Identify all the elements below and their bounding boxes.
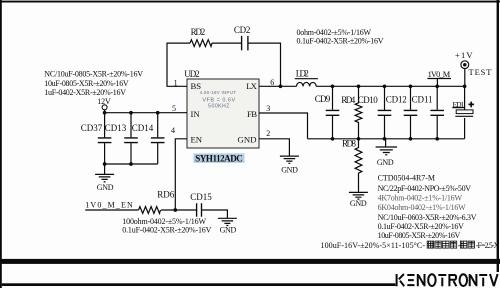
capacitor CD13 bbox=[130, 113, 132, 164]
ED1 plus sign bbox=[469, 102, 475, 108]
node LX junction bbox=[279, 84, 283, 88]
wire EN net bbox=[85, 209, 138, 211]
svg-text:LX: LX bbox=[246, 81, 257, 91]
capacitor CD37 bbox=[104, 113, 106, 164]
svg-text:GND: GND bbox=[220, 225, 237, 234]
svg-text:RD4: RD4 bbox=[341, 95, 356, 105]
svg-text:CD15: CD15 bbox=[190, 192, 212, 202]
wire GND pin2 bbox=[259, 139, 289, 156]
svg-text:CD14: CD14 bbox=[132, 123, 154, 133]
svg-text:3: 3 bbox=[266, 104, 270, 113]
resistor RD2 bbox=[190, 40, 212, 47]
svg-text:10uF-0805-X5R-±20%-16V: 10uF-0805-X5R-±20%-16V bbox=[378, 231, 461, 240]
svg-text:5: 5 bbox=[172, 104, 176, 113]
capacitor CD10 bbox=[384, 86, 386, 139]
svg-text:+1V: +1V bbox=[455, 50, 473, 60]
inductor LD2 bbox=[297, 82, 317, 86]
svg-text:4K7ohm-0402-±1%-1/16W: 4K7ohm-0402-±1%-1/16W bbox=[378, 193, 463, 202]
capacitor CD2 bbox=[242, 36, 248, 51]
svg-text:IN: IN bbox=[191, 109, 201, 119]
IC UD2 body bbox=[187, 79, 259, 148]
capacitor CD12 bbox=[410, 86, 412, 139]
node CD37 tap bbox=[103, 111, 107, 115]
resistor RD4 bbox=[355, 86, 362, 139]
svg-text:GND: GND bbox=[377, 158, 394, 167]
svg-text:CD2: CD2 bbox=[234, 25, 251, 35]
frame left border bbox=[0, 0, 2, 288]
svg-text:GND: GND bbox=[97, 183, 114, 192]
svg-text:0.1uF-0402-X5R-±20%-16V: 0.1uF-0402-X5R-±20%-16V bbox=[297, 37, 384, 46]
node CD14 top bbox=[156, 111, 160, 115]
svg-text:6K04ohm-0402-±1%-1/16W: 6K04ohm-0402-±1%-1/16W bbox=[378, 203, 467, 212]
node CD9 bottom bbox=[331, 137, 335, 141]
node CD13 top bbox=[129, 111, 133, 115]
svg-text:SYH112ADC: SYH112ADC bbox=[195, 153, 243, 163]
svg-text:UD2: UD2 bbox=[184, 69, 199, 79]
node CD11 top bbox=[435, 84, 439, 88]
svg-text:500KHZ: 500KHZ bbox=[208, 104, 230, 110]
wire caps bottom rail bbox=[105, 163, 158, 165]
frame top border bbox=[0, 1, 500, 3]
wire BS pin1 to left riser bbox=[167, 43, 190, 86]
wire CD15 to ground bbox=[202, 210, 228, 218]
frame right border bbox=[497, 0, 499, 272]
wire LX pin6 stub bbox=[259, 85, 297, 87]
svg-text:GND: GND bbox=[238, 135, 257, 145]
electrolytic capacitor ED1 bbox=[464, 86, 466, 110]
svg-text:0.1uF-0402-X5R-±20%-16V: 0.1uF-0402-X5R-±20%-16V bbox=[122, 225, 211, 234]
svg-text:0.1uF-0402-X5R-±20%-16V: 0.1uF-0402-X5R-±20%-16V bbox=[378, 222, 465, 231]
svg-text:1uF-0402-X5R-±20%-16V: 1uF-0402-X5R-±20%-16V bbox=[44, 88, 126, 97]
node RD4 bottom bbox=[357, 137, 361, 141]
wire mid rail bbox=[308, 138, 465, 140]
svg-text:CTD0504-4R7-M: CTD0504-4R7-M bbox=[378, 174, 435, 183]
svg-text:4.50-18V INPUT: 4.50-18V INPUT bbox=[200, 90, 236, 95]
capacitor CD11 bbox=[436, 86, 438, 139]
node CD12 bottom bbox=[409, 137, 413, 141]
svg-text:2: 2 bbox=[266, 129, 270, 138]
svg-text:NC/10uF-0805-X5R-±20%-16V: NC/10uF-0805-X5R-±20%-16V bbox=[44, 70, 143, 79]
capacitor CD9 bbox=[332, 86, 334, 139]
node CD10 top bbox=[383, 84, 387, 88]
ground input caps bbox=[104, 164, 106, 174]
wire 12V rail to IN pin5 bbox=[105, 110, 187, 113]
svg-text:1V0_M_EN: 1V0_M_EN bbox=[85, 201, 133, 210]
svg-text:1V0_M: 1V0_M bbox=[428, 70, 451, 79]
wire FB pin3 to divider bbox=[259, 113, 308, 139]
ground mid rail bbox=[385, 139, 387, 147]
svg-text:100uF-16V-±20%-5×11-105°C-: 100uF-16V-±20%-5×11-105°C- bbox=[321, 241, 426, 250]
svg-text:CD37: CD37 bbox=[81, 123, 103, 133]
capacitor CD15 bbox=[197, 203, 202, 217]
svg-text:RD6: RD6 bbox=[157, 189, 175, 199]
node CD12 top bbox=[409, 84, 413, 88]
wire CD2 to LX node bbox=[248, 43, 281, 86]
svg-text:CD12: CD12 bbox=[386, 95, 407, 105]
svg-text:10uF-0805-X5R-±20%-16V: 10uF-0805-X5R-±20%-16V bbox=[44, 79, 129, 88]
IC part number highlight SYH112ADC bbox=[194, 153, 245, 162]
ground pin2 bbox=[280, 156, 299, 163]
svg-text:NC/22pF-0402-NPO-±5%-50V: NC/22pF-0402-NPO-±5%-50V bbox=[378, 184, 472, 193]
node EN junction bbox=[173, 208, 177, 212]
svg-text:NC/10uF-0603-X5R-±20%-6.3V: NC/10uF-0603-X5R-±20%-6.3V bbox=[378, 213, 477, 222]
frame thick bottom bar bbox=[0, 259, 500, 264]
wire RD2 to CD2 bbox=[212, 42, 242, 44]
svg-text:FB: FB bbox=[247, 109, 257, 119]
node RD4 top bbox=[357, 84, 361, 88]
ground RD8 bbox=[349, 192, 368, 199]
wire RD6 to CD15 bbox=[161, 209, 196, 211]
node CD9 top bbox=[331, 84, 335, 88]
node CD11 bottom bbox=[435, 137, 439, 141]
signature line bbox=[2, 283, 396, 286]
svg-text:GND: GND bbox=[281, 165, 298, 174]
svg-text:EN: EN bbox=[191, 135, 203, 145]
svg-text:CD11: CD11 bbox=[412, 95, 433, 105]
wire 1V0 top rail bbox=[316, 85, 464, 87]
svg-text:CD10: CD10 bbox=[358, 95, 379, 105]
svg-text:TEST: TEST bbox=[469, 67, 493, 77]
svg-text:RD8: RD8 bbox=[342, 139, 357, 149]
svg-text:CD9: CD9 bbox=[315, 94, 331, 104]
svg-text:GND: GND bbox=[350, 199, 367, 208]
node ED1 top bbox=[463, 84, 467, 88]
svg-text:4: 4 bbox=[171, 126, 175, 135]
node caps gnd left bbox=[103, 162, 107, 166]
frame right border top layer bbox=[497, 0, 499, 272]
svg-text:6: 6 bbox=[270, 78, 274, 87]
capacitor CD14 bbox=[157, 113, 159, 164]
resistor RD6 bbox=[139, 207, 161, 214]
node CD10 bottom bbox=[383, 137, 387, 141]
wire EN pin4 down bbox=[175, 139, 187, 210]
node caps gnd mid bbox=[129, 162, 133, 166]
ground CD15 bbox=[218, 218, 237, 225]
KENOTRONTV logo bbox=[397, 274, 498, 286]
resistor RD8 bbox=[355, 139, 362, 192]
svg-text:-F=2.5-X: -F=2.5-X bbox=[476, 241, 500, 250]
svg-text:LD2: LD2 bbox=[296, 69, 309, 79]
svg-text:CD13: CD13 bbox=[105, 123, 127, 133]
svg-text:RD2: RD2 bbox=[191, 27, 206, 37]
